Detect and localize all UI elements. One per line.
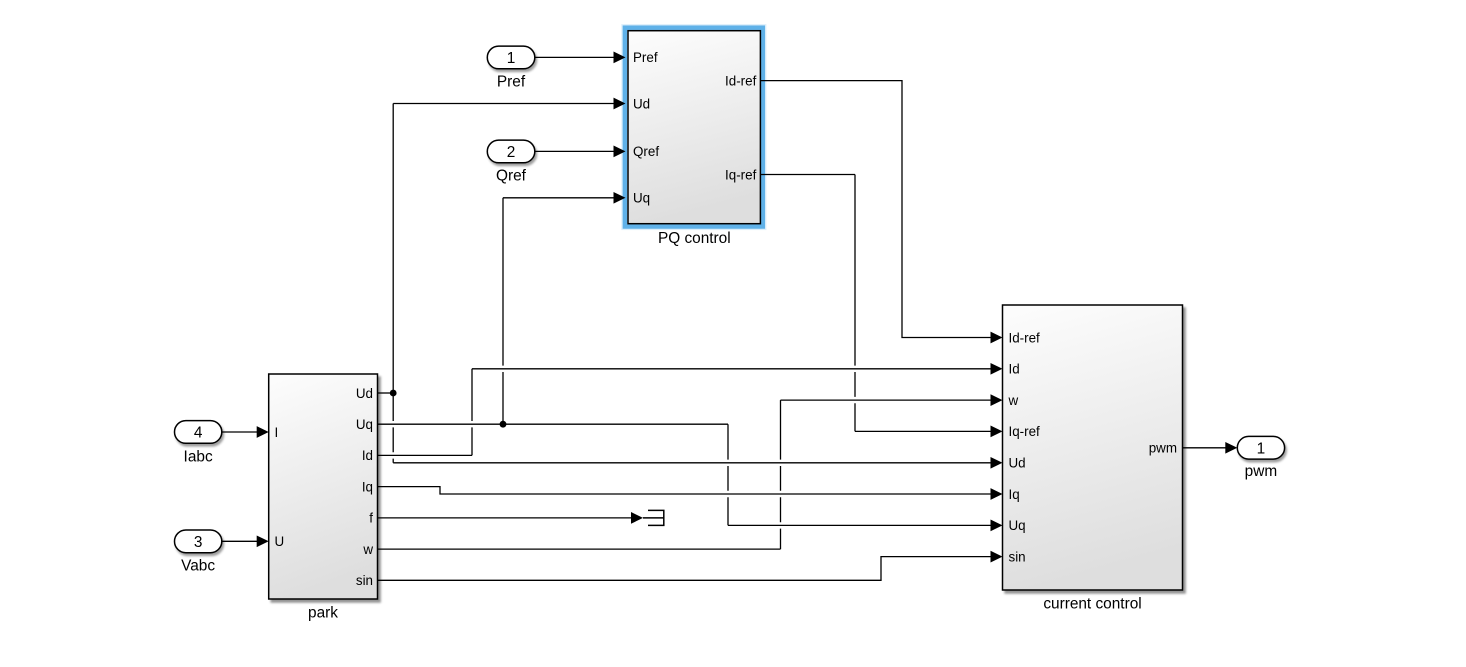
svg-text:1: 1: [507, 50, 516, 67]
svg-text:pwm: pwm: [1245, 463, 1278, 480]
svg-text:w: w: [1008, 393, 1019, 408]
svg-text:pwm: pwm: [1149, 441, 1177, 456]
svg-text:I: I: [275, 425, 279, 440]
svg-text:1: 1: [1257, 440, 1266, 457]
svg-text:Qref: Qref: [633, 144, 659, 159]
svg-text:4: 4: [194, 425, 203, 442]
inport 1 Pref: [487, 46, 535, 69]
svg-text:U: U: [275, 534, 285, 549]
wire Id-ref: PQ control to current control: [760, 81, 1002, 344]
wire net Uq: park Uq to PQ control Uq and current control Uq: [378, 192, 1003, 531]
svg-text:f: f: [369, 511, 373, 526]
svg-text:Uq: Uq: [633, 191, 650, 206]
wire Vabc to park: [222, 535, 269, 547]
svg-text:3: 3: [194, 534, 203, 551]
junction dot Ud: [390, 390, 397, 397]
outport 1 pwm: [1237, 436, 1284, 459]
svg-text:Id-ref: Id-ref: [1009, 330, 1041, 345]
wire Iq-ref: PQ control to current control: [760, 175, 1002, 438]
svg-text:PQ control: PQ control: [658, 230, 731, 247]
svg-text:Iq: Iq: [362, 479, 373, 494]
wire w: park w to current control w: [378, 394, 1003, 549]
inport 3 Vabc: [175, 530, 222, 553]
svg-text:Uq: Uq: [1009, 518, 1026, 533]
svg-text:Ud: Ud: [356, 386, 373, 401]
terminator: [643, 510, 664, 525]
svg-text:2: 2: [507, 144, 516, 161]
wire f: park f to terminator: [378, 512, 644, 524]
svg-text:Iq-ref: Iq-ref: [725, 167, 757, 182]
svg-text:Iabc: Iabc: [184, 448, 213, 465]
svg-text:Pref: Pref: [633, 50, 658, 65]
wire Qref to PQ control: [535, 146, 626, 158]
wire sin: park sin to current control sin: [378, 551, 1003, 581]
inport 2 Qref: [487, 140, 535, 163]
svg-text:Id: Id: [1009, 362, 1020, 377]
svg-text:Iq-ref: Iq-ref: [1009, 424, 1041, 439]
svg-text:park: park: [308, 605, 338, 622]
wire Pref to PQ control: [535, 52, 626, 64]
svg-text:Ud: Ud: [633, 96, 650, 111]
svg-text:Ud: Ud: [1009, 456, 1026, 471]
svg-text:Pref: Pref: [497, 74, 526, 91]
wire Iabc to park: [222, 426, 269, 438]
block park: [269, 374, 378, 599]
svg-text:Vabc: Vabc: [181, 558, 215, 575]
junction dot Uq: [500, 421, 507, 428]
svg-text:w: w: [362, 542, 373, 557]
svg-text:Iq: Iq: [1009, 487, 1020, 502]
block PQ control selection border: [625, 28, 763, 227]
svg-text:Id: Id: [362, 448, 373, 463]
svg-text:Uq: Uq: [356, 417, 373, 432]
inport 4 Iabc: [175, 421, 222, 444]
block PQ control: [628, 31, 760, 224]
block current control: [1003, 305, 1183, 590]
wire Id: park Id to current control Id: [378, 363, 1003, 455]
svg-text:sin: sin: [1009, 549, 1026, 564]
svg-text:Id-ref: Id-ref: [725, 73, 757, 88]
wire net Ud: park Ud to PQ control Ud and current control Ud: [378, 98, 1003, 469]
svg-text:current control: current control: [1043, 596, 1141, 613]
svg-text:Qref: Qref: [496, 168, 527, 185]
wire Iq: park Iq to current control Iq: [378, 487, 1003, 500]
wire pwm: current control to outport: [1183, 442, 1238, 454]
svg-text:sin: sin: [356, 573, 373, 588]
